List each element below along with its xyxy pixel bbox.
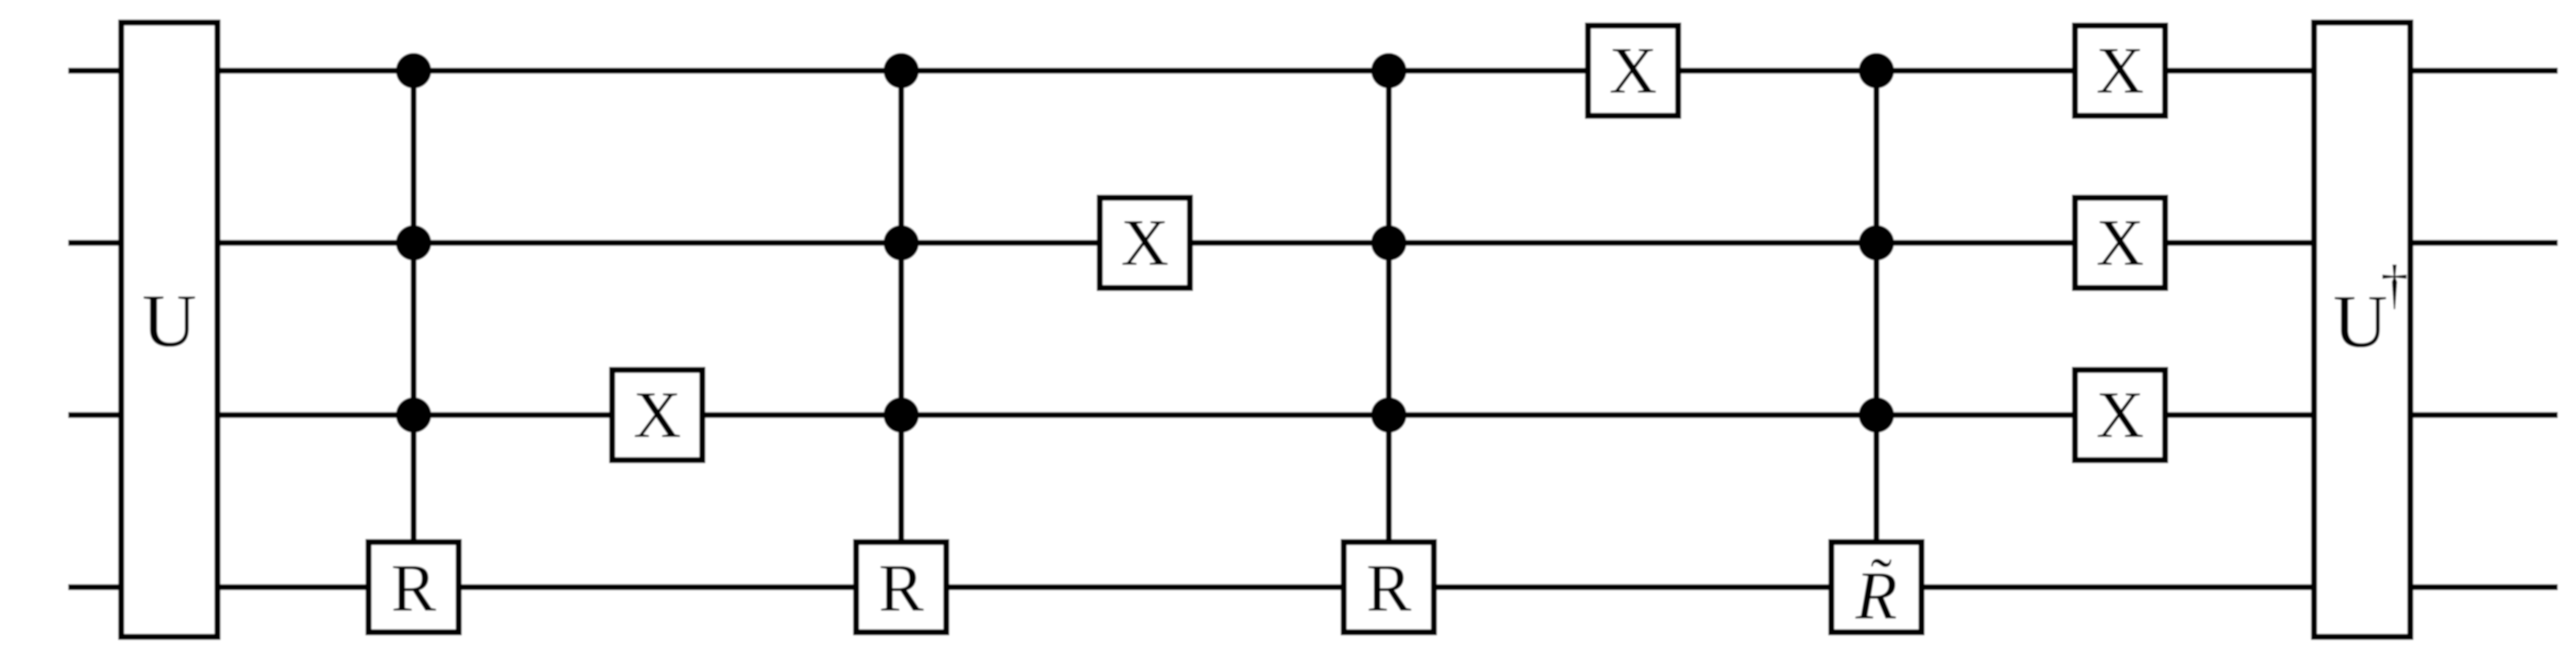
gate R-tilde (controlled rotation on q3) bbox=[1832, 542, 1922, 634]
control dot column 3 on q2 bbox=[1371, 397, 1406, 433]
gate U (unitary, spans all 4 qubits) bbox=[121, 23, 217, 637]
wire: control connector column 2 bbox=[898, 71, 905, 552]
svg-text:˜: ˜ bbox=[1871, 545, 1892, 616]
gate R1 (controlled rotation on q3) bbox=[369, 542, 459, 633]
wire q0 (top) bbox=[68, 68, 2558, 74]
control dot column 4 on q2 bbox=[1859, 397, 1894, 433]
svg-text:X: X bbox=[1609, 34, 1657, 107]
gate X on q1 after column 2 bbox=[1100, 198, 1190, 288]
gate X on q2 before U-dagger bbox=[2075, 370, 2165, 460]
control dot column 1 on q2 bbox=[396, 397, 431, 433]
wire q2 bbox=[68, 412, 2558, 418]
wire: control connector column 1 bbox=[411, 71, 417, 552]
control dot column 3 on q1 bbox=[1371, 225, 1406, 261]
svg-text:R: R bbox=[1366, 551, 1411, 626]
gate X on q0 before U-dagger bbox=[2075, 26, 2165, 116]
gate X on q0 after column 3 bbox=[1588, 26, 1678, 116]
control dot column 4 on q1 bbox=[1859, 225, 1894, 261]
control dot column 4 on q0 bbox=[1859, 53, 1894, 88]
gate X on q1 before U-dagger bbox=[2075, 198, 2165, 288]
svg-text:U: U bbox=[142, 279, 197, 363]
svg-text:X: X bbox=[2096, 34, 2144, 107]
svg-text:R: R bbox=[878, 551, 923, 626]
wire: control connector column 4 bbox=[1874, 71, 1880, 552]
svg-text:†: † bbox=[2381, 255, 2408, 315]
svg-text:R: R bbox=[391, 551, 436, 626]
svg-text:U: U bbox=[2333, 280, 2388, 363]
gate U-dagger (inverse unitary, spans all 4 qubits) bbox=[2314, 23, 2410, 637]
control dot column 3 on q0 bbox=[1371, 53, 1406, 88]
wire q1 bbox=[68, 240, 2558, 246]
gate X on q2 after column 1 bbox=[612, 370, 702, 460]
svg-text:X: X bbox=[2096, 378, 2144, 452]
gate R3 (controlled rotation on q3) bbox=[1344, 542, 1434, 633]
svg-text:X: X bbox=[1121, 206, 1169, 280]
gate R2 (controlled rotation on q3) bbox=[856, 542, 947, 633]
control dot column 2 on q2 bbox=[884, 397, 919, 433]
control dot column 2 on q1 bbox=[884, 225, 919, 261]
svg-text:X: X bbox=[633, 378, 682, 452]
wire q3 (bottom) bbox=[68, 584, 2558, 591]
wire: control connector column 3 bbox=[1386, 71, 1392, 552]
svg-text:X: X bbox=[2096, 206, 2144, 280]
control dot column 1 on q0 bbox=[396, 53, 431, 88]
control dot column 2 on q0 bbox=[884, 53, 919, 88]
control dot column 1 on q1 bbox=[396, 225, 431, 261]
